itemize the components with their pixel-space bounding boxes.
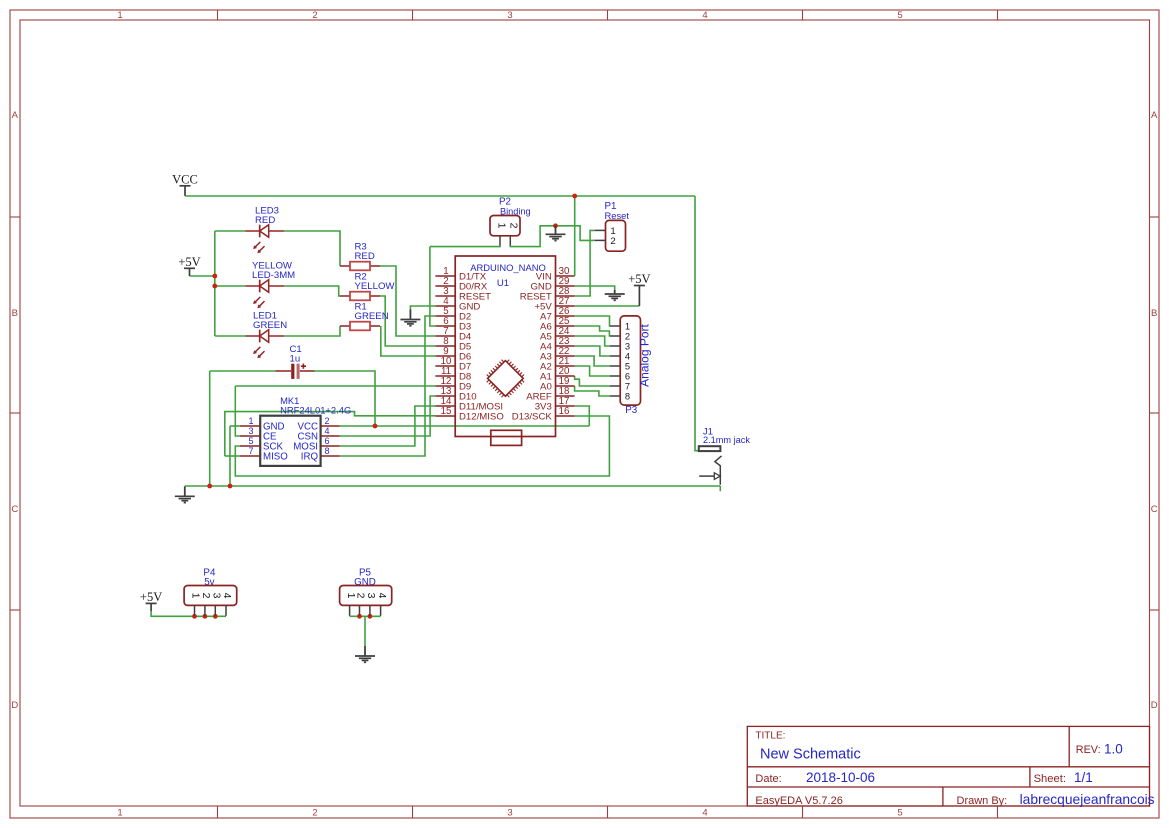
MK1 pin names	[263, 422, 318, 463]
svg-text:+5V: +5V	[178, 255, 200, 269]
wire C1 to ground bus	[209, 371, 211, 486]
svg-text:1/1: 1/1	[1074, 770, 1093, 785]
wire R1 to D6	[381, 326, 436, 356]
svg-text:D: D	[1151, 700, 1158, 711]
svg-text:1.0: 1.0	[1104, 742, 1123, 757]
svg-text:3: 3	[211, 593, 223, 599]
svg-text:Sheet:: Sheet:	[1034, 773, 1066, 785]
junction P4 pin3	[213, 614, 218, 619]
wire D13/SCK pin16 to MK1 SCK	[235, 416, 609, 476]
svg-text:D12/MISO: D12/MISO	[459, 411, 504, 422]
ground symbol at GND pin4	[400, 310, 420, 326]
svg-text:EasyEDA V5.7.26: EasyEDA V5.7.26	[755, 795, 842, 807]
svg-text:1: 1	[117, 808, 122, 819]
wire LED1 to R1	[284, 326, 340, 336]
svg-text:Analog Port: Analog Port	[638, 323, 652, 386]
svg-text:3: 3	[507, 10, 512, 21]
U1 left pins 1-15	[435, 266, 503, 422]
connector J1 barrel	[699, 446, 721, 451]
wire R3 to D4	[380, 266, 435, 336]
svg-text:4: 4	[221, 593, 233, 599]
J1 sleeve arrow	[699, 473, 720, 480]
svg-text:B: B	[12, 308, 18, 319]
module MK1 NRF24L01+2.4G body	[260, 416, 320, 466]
svg-text:4: 4	[324, 426, 329, 436]
resistor R1	[340, 322, 380, 331]
svg-text:1: 1	[190, 593, 202, 599]
svg-text:3: 3	[248, 426, 253, 436]
MK1 pin stubs	[240, 426, 340, 456]
U1 right pins 30-16	[512, 266, 575, 422]
wire P5 pin bus	[350, 615, 381, 617]
wire 3V3 pin17 right	[575, 406, 590, 426]
svg-text:D: D	[11, 700, 18, 711]
svg-text:Drawn By:: Drawn By:	[957, 795, 1008, 807]
net symbol +5V at P4	[140, 590, 162, 611]
junction +5V bus A	[212, 274, 217, 279]
wire R2 to D5	[380, 296, 435, 346]
wire +5V pin27	[575, 305, 640, 307]
svg-text:5: 5	[897, 808, 902, 819]
junction C1/MK1 VCC	[373, 424, 378, 429]
wire A2 to P3 pin6	[575, 366, 611, 376]
svg-text:1: 1	[496, 223, 508, 229]
wire P2 pin1	[430, 246, 500, 247]
connector P5 body	[340, 586, 392, 606]
wire 3V3 to MK1 VCC	[340, 425, 590, 427]
svg-text:B: B	[1151, 308, 1157, 319]
svg-text:P3: P3	[625, 405, 638, 416]
IC U1 ARDUINO_NANO body	[455, 256, 555, 437]
resistor R3	[340, 262, 380, 271]
LED3 red	[245, 225, 284, 254]
svg-text:GREEN: GREEN	[253, 320, 287, 331]
wire C1 left	[210, 370, 276, 372]
wire P2 pin1 to D3	[430, 247, 436, 326]
LED2 yellow	[245, 280, 284, 309]
wire +5V to LED bus	[190, 275, 215, 277]
U1 bottom connector rectangle	[491, 430, 522, 445]
svg-text:VCC: VCC	[172, 172, 198, 186]
wire A7 to P3 pin1	[575, 316, 611, 326]
svg-text:C: C	[11, 504, 18, 515]
svg-text:A: A	[1151, 110, 1158, 121]
LED1 green	[245, 330, 284, 359]
junction P4 pin1	[192, 614, 197, 619]
svg-text:U1: U1	[497, 278, 509, 289]
svg-text:LED-3MM: LED-3MM	[252, 270, 295, 281]
svg-text:8: 8	[324, 446, 329, 456]
P3 pin numbers	[625, 320, 630, 401]
svg-text:2: 2	[508, 223, 520, 229]
wire to LED1 green	[215, 335, 246, 337]
svg-text:GREEN: GREEN	[355, 311, 389, 322]
wire LED3 to R3	[284, 231, 340, 266]
connector P3 body	[620, 316, 640, 405]
P1 pin stubs	[595, 230, 606, 240]
svg-text:3: 3	[365, 593, 377, 599]
wire to LED3	[215, 230, 246, 232]
svg-text:2: 2	[355, 593, 367, 599]
wire C1 right to MK1 VCC	[315, 371, 376, 426]
net symbol VCC	[172, 172, 198, 196]
P2 pin stubs	[500, 236, 510, 246]
wire P5 to ground	[364, 616, 366, 646]
resistor R2	[340, 292, 380, 301]
svg-text:4: 4	[376, 593, 388, 599]
svg-text:1: 1	[248, 416, 253, 426]
junction ground bus B	[228, 484, 233, 489]
ground symbol at P5	[355, 646, 375, 662]
svg-text:2.1mm jack: 2.1mm jack	[703, 435, 750, 445]
P3 pin stubs	[610, 326, 620, 396]
wire VCC rail down to J1	[695, 196, 698, 451]
connector P2 body	[490, 216, 520, 236]
wire MK1 CE to D9	[235, 386, 240, 436]
svg-text:5: 5	[248, 436, 253, 446]
net symbol +5V left	[178, 255, 200, 276]
svg-text:2: 2	[312, 808, 317, 819]
wire MK1 GND stub link	[230, 425, 240, 427]
svg-text:A: A	[12, 110, 19, 121]
wire GND pin4 to ground	[410, 306, 435, 316]
svg-text:Reset: Reset	[605, 210, 630, 221]
svg-text:2: 2	[324, 416, 329, 426]
wire A5 to P3 pin3	[575, 336, 611, 346]
wire D9 row	[235, 385, 435, 387]
svg-text:New Schematic: New Schematic	[760, 746, 861, 762]
svg-text:2: 2	[610, 236, 615, 247]
wire A3 to P3 pin5	[575, 356, 611, 366]
wire VCC rail top	[185, 195, 695, 197]
wire GND pin29 to ground	[575, 286, 615, 292]
junction +5V bus B	[212, 284, 217, 289]
connector P1 body	[606, 220, 626, 251]
svg-text:2: 2	[200, 593, 212, 599]
svg-text:YELLOW: YELLOW	[355, 281, 396, 292]
svg-text:2: 2	[312, 10, 317, 21]
svg-text:RED: RED	[255, 215, 275, 226]
wire MK1 GND to ground bus	[229, 426, 231, 486]
svg-text:1: 1	[117, 10, 122, 21]
svg-text:+5V: +5V	[140, 590, 162, 604]
wire VCC to VIN pin30	[574, 196, 576, 276]
J1 tip contact	[715, 456, 722, 485]
svg-text:NRF24L01+2.4G: NRF24L01+2.4G	[280, 405, 351, 416]
svg-text:REV:: REV:	[1076, 744, 1101, 756]
svg-text:1u: 1u	[290, 354, 301, 365]
svg-text:D13/SCK: D13/SCK	[512, 411, 553, 422]
wire P1 pin1 to RESET pin28	[575, 230, 595, 296]
svg-text:4: 4	[702, 10, 707, 21]
svg-text:labrecquejeanfrancois: labrecquejeanfrancois	[1020, 792, 1155, 807]
capacitor C1	[275, 364, 314, 379]
junction P4 pin2	[203, 614, 208, 619]
junction VCC/VIN	[572, 194, 577, 199]
connector P4 body	[184, 586, 237, 606]
svg-text:7: 7	[248, 446, 253, 456]
svg-text:15: 15	[441, 406, 452, 417]
svg-text:5: 5	[897, 10, 902, 21]
svg-text:3: 3	[507, 808, 512, 819]
wire MK1 CSN to D10	[340, 396, 436, 436]
ground symbol at P2	[546, 226, 566, 241]
net symbol +5V right	[628, 272, 650, 306]
U1 chip diamond glyph	[487, 360, 524, 397]
P5 pin stubs and numbers	[345, 593, 388, 616]
svg-text:2018-10-06: 2018-10-06	[806, 770, 875, 785]
svg-text:16: 16	[559, 406, 570, 417]
junction P2 gnd	[553, 223, 558, 228]
wire MK1 IRQ to D2	[340, 316, 436, 456]
title block	[747, 726, 1149, 806]
svg-text:RED: RED	[355, 251, 375, 262]
junction ground bus A	[207, 484, 212, 489]
svg-text:4: 4	[702, 808, 707, 819]
svg-text:TITLE:: TITLE:	[755, 731, 785, 742]
junction P5 pin2	[357, 614, 362, 619]
wire ground bus	[185, 485, 721, 487]
svg-text:C: C	[1151, 504, 1158, 515]
svg-text:8: 8	[625, 390, 630, 401]
wire P2 pin2 to P1 pin2	[510, 226, 594, 247]
P4 pin stubs and numbers	[190, 593, 234, 616]
wire +5V to P4 pins	[151, 611, 226, 616]
svg-text:IRQ: IRQ	[301, 452, 319, 463]
wire MK1 MOSI to D11/MOSI	[340, 406, 436, 446]
wire MK1 MISO to D12/MISO	[225, 412, 436, 456]
wire LED2 to R2	[284, 286, 340, 296]
svg-text:6: 6	[324, 436, 329, 446]
wire A1 to P3 pin7	[575, 376, 611, 386]
svg-text:Date:: Date:	[755, 773, 781, 785]
wire LED anode bus vertical	[214, 231, 216, 336]
wire A4 to P3 pin4	[575, 346, 611, 356]
ground symbol left bus	[175, 486, 195, 502]
svg-text:MISO: MISO	[263, 452, 288, 463]
wire J1 sleeve stub	[719, 486, 721, 491]
junction P5 pin3	[368, 614, 373, 619]
ground symbol at GND pin29	[605, 290, 625, 300]
MK1 pin numbers	[248, 416, 329, 456]
wire MK1 MISO stub link	[225, 455, 240, 457]
wire A6 to P3 pin2	[575, 326, 611, 336]
svg-text:+5V: +5V	[628, 272, 650, 286]
wire to LED2 yellow	[215, 285, 246, 287]
wire A0 to P3 pin8	[575, 386, 611, 396]
